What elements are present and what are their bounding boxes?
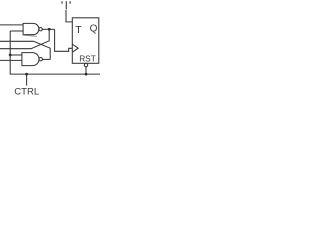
clock triangle U3: [72, 44, 78, 52]
bubble RST active-low: [84, 63, 87, 66]
svg-text:RST: RST: [79, 53, 96, 63]
nand gate U2: [22, 53, 39, 66]
node junction CTRL on bus: [25, 73, 28, 76]
wire input to NAND2 bottom (from left edge): [0, 59, 22, 61]
label '1' constant: [62, 1, 70, 9]
svg-text:T: T: [75, 24, 82, 36]
wire U2 output: [42, 58, 50, 60]
wire input A to NAND1: [0, 24, 23, 26]
wire U1 output: [42, 28, 54, 30]
flip-flop U3 box: [72, 18, 99, 64]
wire CTRL stub: [26, 74, 28, 86]
wire vertical CTRL net: [10, 31, 100, 74]
wire faint under gate U1: [23, 35, 37, 36]
svg-text:CTRL: CTRL: [14, 86, 40, 97]
nand gate U1: [23, 23, 39, 34]
node junction on CTRL net to NAND2 input A: [9, 54, 12, 57]
wire NAND2 input A: [10, 54, 22, 56]
bubble U2 output: [39, 58, 42, 61]
svg-text:Q: Q: [90, 24, 98, 35]
wire feedback from U1 output to left edge: [0, 29, 49, 48]
wire clock route to flip-flop: [55, 29, 73, 51]
wire feedback from U2 output to left edge: [0, 41, 50, 59]
wire input B to NAND1 (from vertical CTRL net): [10, 30, 23, 32]
wire constant 1 to T input: [66, 10, 72, 22]
bubble U1 output: [39, 28, 42, 31]
node junction RST on bus: [85, 73, 88, 76]
node junction on U1 output: [48, 28, 51, 31]
wire RST bubble to bus: [85, 67, 87, 74]
